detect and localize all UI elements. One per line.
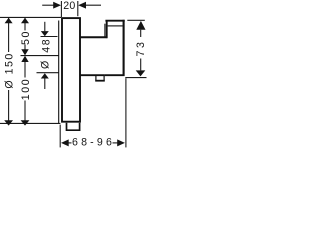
extension line top-left (top of trim, y=17.4) bbox=[0, 16, 61, 18]
dimension 50 line bbox=[24, 18, 26, 31]
arrowhead Ø150 bottom (down) bbox=[4, 120, 13, 125]
arrowhead Ø48 top (down, outside) bbox=[41, 31, 49, 36]
svg-text:Ø: Ø bbox=[40, 61, 52, 69]
arrowhead 73 bottom (down) bbox=[136, 70, 146, 76]
extension line top of Ø48 sleeve bbox=[41, 36, 58, 38]
arrowhead 20 right (left-pointing, outside) bbox=[78, 2, 86, 9]
basic set box cap top edge bbox=[105, 20, 124, 22]
svg-text:68-96: 68-96 bbox=[72, 137, 115, 149]
label 50 bbox=[20, 30, 31, 44]
arrowhead 68-96 left (left-pointing) bbox=[61, 139, 69, 146]
flange notch left edge bbox=[95, 76, 97, 81]
arrowhead Ø48 bottom (up, outside) bbox=[41, 73, 49, 78]
arrowhead 100 bottom (down) bbox=[21, 120, 30, 125]
flange notch right edge bbox=[103, 76, 105, 81]
extension line bottom of Ø48 sleeve bbox=[37, 72, 59, 74]
wall face stub line bbox=[104, 24, 106, 37]
dimension Ø150 line bbox=[8, 18, 10, 52]
basic set box right edge bbox=[123, 20, 125, 76]
extension line 20-right bbox=[77, 1, 79, 16]
svg-text:20: 20 bbox=[63, 0, 75, 12]
svg-text:48: 48 bbox=[41, 38, 53, 53]
basic set box bottom edge bbox=[104, 74, 124, 76]
arrowhead 100 top (up) bbox=[21, 56, 28, 62]
arrowhead 50 top (up) bbox=[21, 18, 29, 24]
basic set box left edge bbox=[106, 21, 108, 38]
svg-text:50: 50 bbox=[20, 30, 32, 45]
sleeve top edge bbox=[80, 36, 107, 38]
label 100 bbox=[20, 78, 31, 101]
dimension 68-96 line segments bbox=[68, 142, 72, 144]
arrowhead 20 left (right-pointing, outside) bbox=[53, 2, 61, 9]
dimension 20 line right tail bbox=[85, 4, 102, 6]
arrowhead Ø150 top (up) bbox=[5, 18, 13, 24]
handle front secondary contour bbox=[58, 21, 60, 124]
extension line 73-bottom bbox=[125, 77, 146, 79]
extension line bottom-left (bottom of trim, y=123.4) bbox=[0, 122, 60, 124]
flange notch bottom edge bbox=[95, 80, 105, 82]
svg-text:73: 73 bbox=[135, 40, 147, 57]
basic set box cap inner line bbox=[108, 25, 123, 27]
extension line depth-right (back of box) bbox=[125, 78, 127, 147]
arrowhead 50 bottom (down) bbox=[21, 49, 28, 55]
handle bottom protrusion bbox=[67, 123, 80, 130]
extension line depth-left (front face) bbox=[59, 125, 61, 148]
arrowhead 68-96 right (right-pointing) bbox=[117, 139, 125, 146]
svg-text:100: 100 bbox=[20, 78, 32, 100]
dimension Ø48 line tails bbox=[44, 22, 46, 31]
arrowhead 73 top (up) bbox=[136, 21, 145, 30]
label Ø150 bbox=[4, 53, 15, 90]
svg-text:Ø 150: Ø 150 bbox=[3, 52, 15, 88]
handle outline (side view of trim handle) bbox=[62, 18, 80, 122]
dimension 73 line bbox=[140, 30, 142, 37]
extension line 73-top bbox=[127, 19, 145, 21]
extension line center axis (y=55.6) bbox=[21, 55, 59, 57]
dimension 100 line bbox=[24, 61, 26, 78]
sleeve bottom edge bbox=[80, 74, 104, 76]
dimension 20 line left tail bbox=[42, 4, 55, 6]
extension line 20-left bbox=[60, 1, 62, 17]
